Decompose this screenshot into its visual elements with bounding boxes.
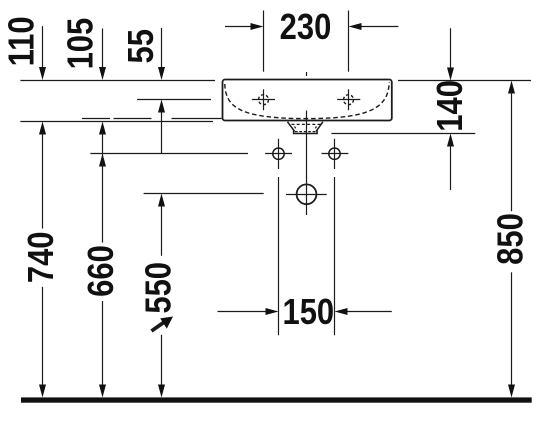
dimension 230 right arrow xyxy=(349,23,399,30)
extension line 150 right xyxy=(334,177,336,335)
dimension 55 arrow down xyxy=(158,28,165,80)
dimension 55 arrow up xyxy=(158,100,165,154)
dimension 850 line xyxy=(508,81,515,398)
svg-text:850: 850 xyxy=(491,213,531,265)
basin bowl hidden edge (dashed) xyxy=(225,82,389,119)
dimension 150 left arrow xyxy=(218,308,279,315)
dimension 550 line xyxy=(158,194,165,398)
svg-text:660: 660 xyxy=(82,245,122,297)
extension line 230 right xyxy=(348,11,350,72)
basin centerline xyxy=(306,72,308,215)
outlet xyxy=(288,122,323,134)
floor line xyxy=(21,397,532,402)
dimension 140 arrow up xyxy=(447,134,454,191)
basin outline xyxy=(223,80,392,121)
dimension 110 arrow down xyxy=(39,26,46,80)
fixing hole centerline extension (660 level) xyxy=(90,153,248,155)
svg-text:550: 550 xyxy=(139,262,179,314)
svg-text:150: 150 xyxy=(282,293,334,333)
drain hole xyxy=(286,184,327,204)
dimension 150 right arrow xyxy=(335,308,392,315)
svg-text:740: 740 xyxy=(22,231,62,283)
dashed 745 level line xyxy=(82,118,222,120)
diagonal pointer arrow at 550 xyxy=(152,317,174,332)
dimension 105 arrow down xyxy=(99,29,106,81)
dimension 660 line xyxy=(99,122,106,398)
extension line 150 left xyxy=(278,177,280,335)
rim level line left (850 level) xyxy=(20,80,215,82)
fixing hole right xyxy=(322,139,349,169)
tap hole left xyxy=(252,89,275,110)
fixing hole left xyxy=(265,139,292,169)
svg-text:230: 230 xyxy=(280,8,332,48)
svg-text:140: 140 xyxy=(431,80,471,132)
drain centerline extension (550 level) xyxy=(144,193,264,195)
ceramic bottom level line (740 level) xyxy=(20,121,213,123)
svg-text:110: 110 xyxy=(2,16,42,66)
svg-text:55: 55 xyxy=(122,29,162,63)
dimension 740 line xyxy=(39,122,46,398)
dimension 140 arrow down xyxy=(447,28,454,80)
rim level line right xyxy=(398,80,531,82)
dimension 230 left arrow xyxy=(225,23,264,30)
extension line 230 left xyxy=(263,11,265,72)
svg-text:105: 105 xyxy=(61,18,101,70)
outlet bottom level line (140 level) xyxy=(331,133,475,135)
tap centerline extension left (55 level) xyxy=(137,99,211,101)
tap hole right xyxy=(337,89,360,110)
